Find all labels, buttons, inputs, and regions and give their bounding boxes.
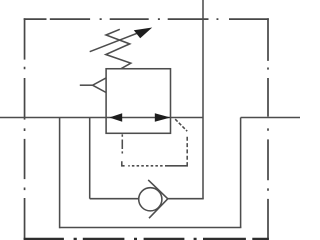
vent stub line (80, 84, 93, 86)
arrowhead adjustment arrow (134, 28, 152, 39)
wire: check valve line right segment (168, 198, 204, 200)
enclosure border top (dash-dot) (24, 18, 269, 20)
pilot line: left corner solid piece (122, 161, 125, 166)
enclosure border right (dash-dot) (267, 18, 269, 239)
wire: outlet down leg (240, 118, 242, 228)
spring (zigzag) (106, 29, 131, 68)
pilot line dashed: diagonal from outlet side (175, 119, 187, 131)
wire: vertical trunk from top edge (202, 0, 204, 199)
wire: check valve line left segment (90, 198, 139, 200)
wire: main inlet line P (left edge through valve to trunk) (0, 117, 203, 119)
arrowhead right (flow) (155, 113, 171, 121)
enclosure border bottom (dash-dot, heavier) (24, 238, 269, 240)
pilot line: right corner solid piece (165, 162, 187, 166)
wire: check valve branch left leg (89, 118, 91, 199)
pilot line dashed: up to valve bottom (121, 134, 123, 153)
arrowhead left (flow) (109, 113, 122, 121)
wire: outlet line to right edge (241, 117, 300, 119)
wire: bottom return line (60, 227, 242, 229)
check valve circle (139, 188, 162, 211)
pilot line dashed: bottom horizontal fine dashes (128, 165, 162, 167)
wire: left loop leg (59, 118, 61, 229)
enclosure border left (dash-dot) (24, 18, 26, 239)
vent open arrowhead (93, 78, 107, 93)
valve body square (106, 69, 170, 134)
pilot line dashed: right vertical (186, 137, 188, 160)
adjustment arrow shaft (90, 33, 138, 52)
check valve seat V (148, 180, 168, 218)
